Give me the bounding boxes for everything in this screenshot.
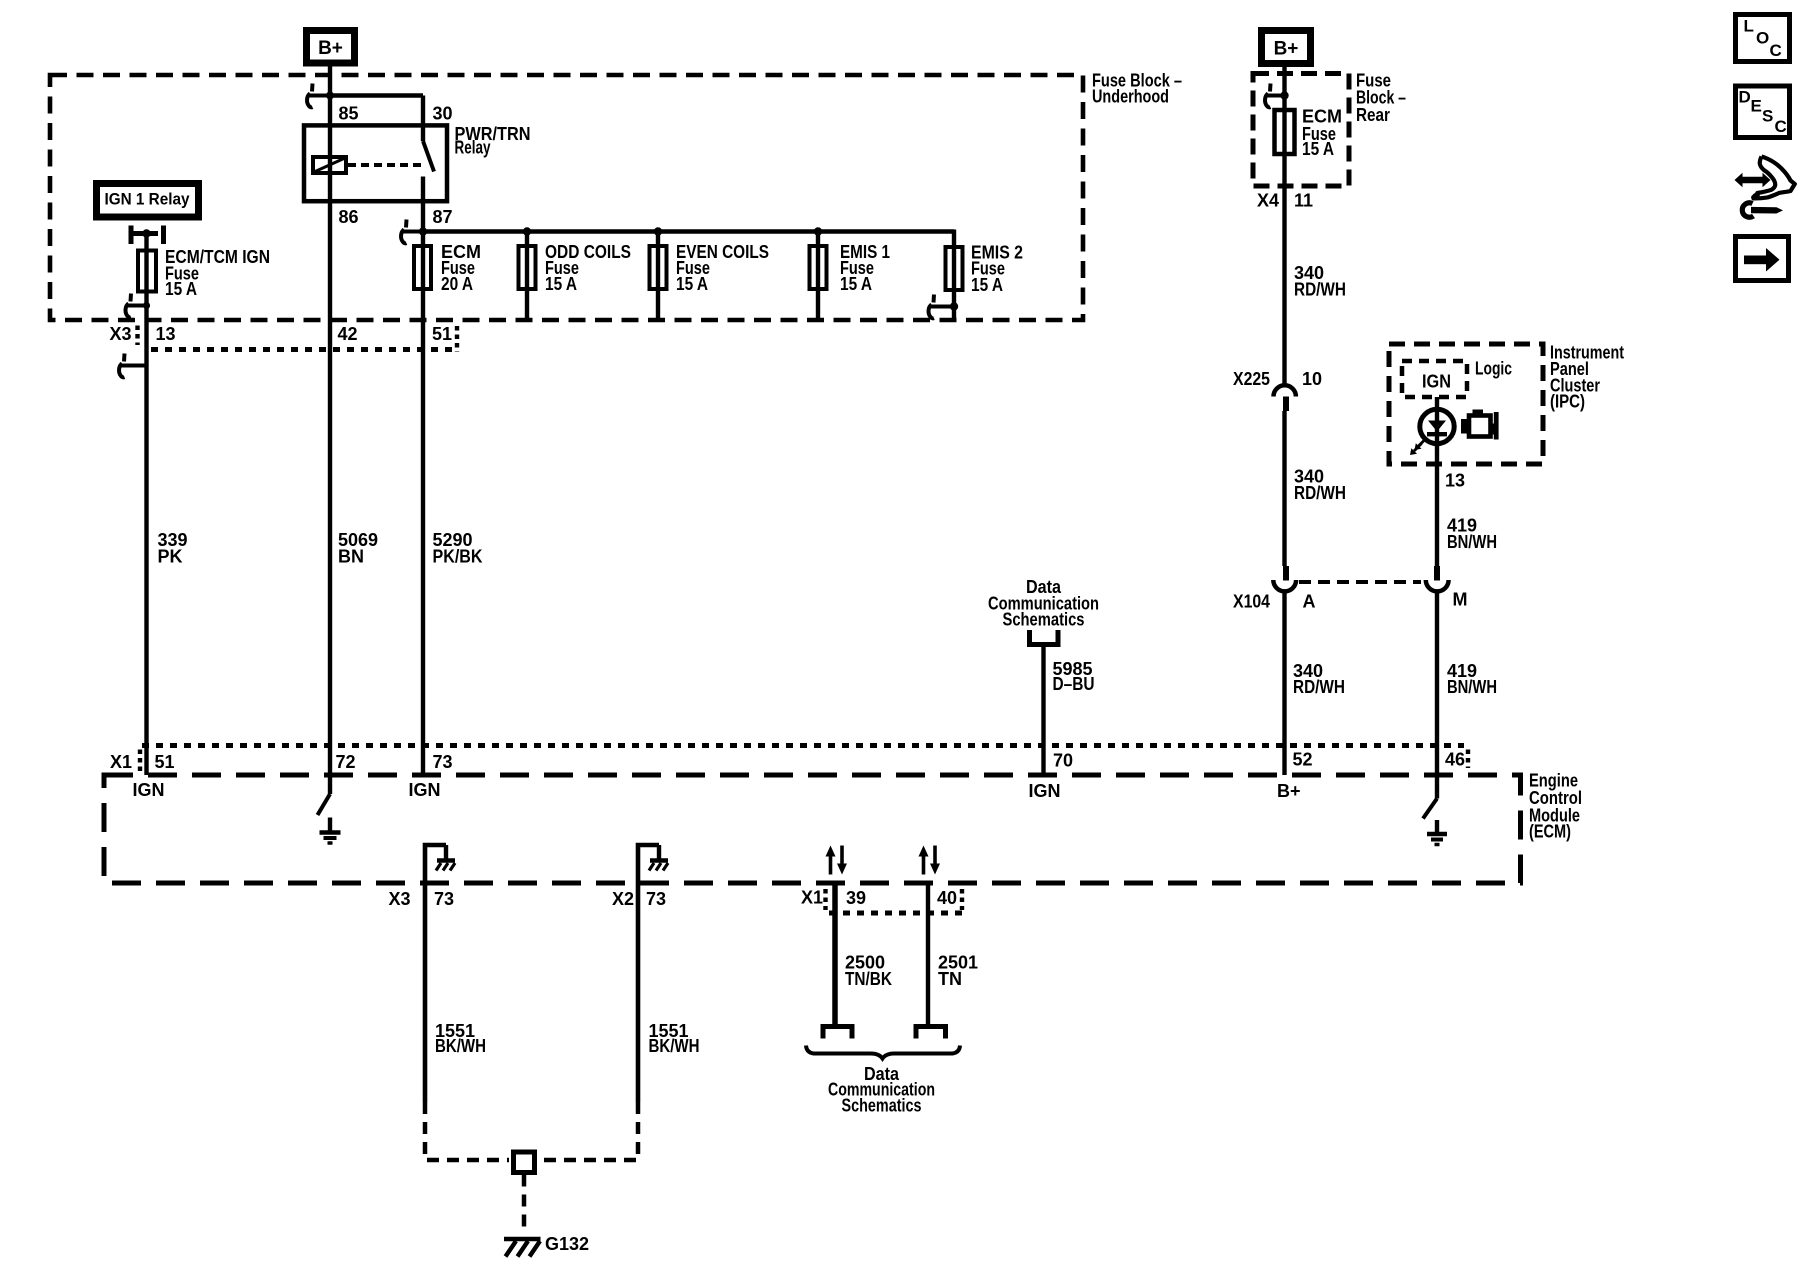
wire label 5290 PK/BK [433,530,483,566]
wire label 419 BN/WH (1) [1447,515,1497,551]
fuse EVEN COILS 15A [650,246,667,289]
wire IGN1 relay to ECM pin 51 (circuit 339) [144,234,148,776]
fuse label EMIS 1 [840,242,890,294]
icon box LOC [1736,15,1790,62]
fuse label ECM 20A [441,242,481,294]
node dot ODD COILS [523,227,531,235]
svg-text:C: C [1770,41,1782,60]
svg-text:X1: X1 [801,888,823,908]
fuse label EMIS 2 [971,242,1023,294]
check engine icon [1461,410,1499,440]
wire X104-A to ECM pin 52 (circuit 340) [1282,593,1286,776]
connector clip at rear ECM fuse [1265,84,1289,108]
svg-text:X3: X3 [389,889,411,909]
relay label PWR/TRN Relay [455,124,531,158]
wire IGN to indicator to IPC pin 13 [1435,397,1439,566]
svg-text:X104: X104 [1233,591,1270,611]
svg-text:70: 70 [1053,751,1073,771]
ground at ECM pin 46 [1427,820,1447,845]
wire B+ to coil and pin 86 down to ECM pin 72 [328,67,332,795]
wire label 5069 BN [338,530,378,566]
connector X3 dotted line [151,347,457,352]
relay actuation dashed link [348,163,421,167]
wire ECM pin 39 (circuit 2500) [832,883,838,1027]
svg-text:39: 39 [846,888,866,908]
connector clip at B+ wire [307,84,334,108]
fuse ECM/TCM IGN 15A [138,251,156,292]
wire label 1551 BK/WH (right) [649,1021,700,1056]
svg-text:BK/WH: BK/WH [435,1036,486,1056]
wire label 5985 D-BU [1053,659,1095,694]
wire label 340 RD/WH (1) [1294,263,1346,299]
svg-text:IGN: IGN [133,780,165,800]
svg-text:Relay: Relay [455,138,491,158]
instrument panel cluster dashed box [1389,344,1543,464]
wire pin85 top link to pin 30 [330,93,423,97]
svg-text:C: C [1775,117,1787,136]
connector X104 dashed link A to M [1299,580,1421,584]
splice box G132 [514,1152,535,1173]
connector X225 symbol [1274,385,1296,411]
svg-text:20 A: 20 A [441,274,473,294]
wire label 340 RD/WH (2) [1294,467,1346,503]
ground G132 [504,1239,541,1257]
svg-text:Schematics: Schematics [842,1095,922,1115]
svg-text:X225: X225 [1233,369,1270,389]
wire EMIS 1 fuse branch [816,232,820,321]
fuse ECM 20A [414,246,431,289]
wire label 340 RD/WH (3) [1293,661,1345,697]
switch at ECM pin 72 [318,794,331,815]
fuse block rear label [1356,71,1406,126]
svg-text:42: 42 [338,324,358,344]
svg-text:86: 86 [339,207,359,227]
svg-text:O: O [1756,29,1769,48]
dashed wire to splice G132 (right) [539,1102,638,1160]
svg-text:51: 51 [155,752,175,772]
svg-text:RD/WH: RD/WH [1294,483,1346,503]
svg-text:BN/WH: BN/WH [1447,677,1497,697]
wire EMIS 2 fuse branch [952,230,956,321]
wire label 1551 BK/WH (left) [435,1021,486,1056]
indicator diode cathode bar [1427,432,1447,436]
svg-text:(IPC): (IPC) [1550,392,1585,412]
data arrows at pin 40 [919,846,941,875]
icon box arrow (next page) [1736,237,1789,281]
ECM ground pigtail X3-73 wire (circuit 1551) [425,845,446,1102]
connector X104 pin A symbol [1273,566,1296,591]
svg-text:X1: X1 [110,752,132,772]
dashed wire to splice G132 (left) [425,1102,509,1160]
brace data communication [806,1046,960,1059]
indicator diode triangle [1428,421,1446,432]
svg-text:L: L [1744,17,1754,36]
ECM ground pigtail X2-73 wire (circuit 1551) [638,845,659,1102]
svg-text:RD/WH: RD/WH [1294,280,1346,300]
wire X225 to X104 (circuit 340) [1282,411,1286,566]
wire label 2500 TN/BK [845,952,892,988]
svg-text:15 A: 15 A [971,275,1003,295]
svg-text:X2: X2 [612,889,634,909]
svg-text:TN/BK: TN/BK [845,969,892,989]
connector X1 dotted line (bottom) [829,911,962,916]
svg-text:IGN: IGN [409,780,441,800]
relay PWR/TRN box [304,125,447,201]
wire right B+ down to X225 (circuit 340) [1282,67,1286,385]
fuse label EVEN COILS [676,242,769,294]
svg-text:IGN: IGN [1029,781,1061,801]
svg-text:15 A: 15 A [165,279,197,299]
fuse label ECM/TCM IGN [165,247,270,299]
svg-text:Underhood: Underhood [1092,86,1169,106]
fuse ODD COILS 15A [519,246,536,289]
svg-text:72: 72 [336,752,356,772]
IPC label [1550,343,1624,412]
fuse EMIS 1 15A [810,246,827,289]
svg-text:46: 46 [1445,750,1465,770]
svg-text:B+: B+ [1277,781,1301,801]
svg-text:40: 40 [937,888,957,908]
fuse label ECM 15A rear [1302,107,1342,159]
node IGN dashed box [1402,361,1467,397]
wire pin 30 drop [421,96,425,142]
svg-text:B+: B+ [318,38,343,59]
IGN 1 relay output terminal bracket [131,226,164,245]
svg-text:Rear: Rear [1356,105,1390,125]
svg-text:13: 13 [156,324,176,344]
icon box DESC [1736,86,1790,138]
svg-text:IGN 1 Relay: IGN 1 Relay [105,189,190,208]
off-page terminal (top data comm) [1030,630,1059,645]
wire EVEN COILS fuse branch [656,232,660,321]
relay switch blade pin 30-87 [423,141,434,172]
connector X3 dotted tick [135,326,139,346]
svg-text:B+: B+ [1274,39,1299,60]
svg-text:73: 73 [646,889,666,909]
svg-text:RD/WH: RD/WH [1293,677,1345,697]
svg-text:E: E [1751,97,1762,116]
svg-text:11: 11 [1294,190,1313,210]
power symbol B+ (right) [1262,31,1311,64]
svg-text:PK: PK [158,546,183,566]
relay IGN 1 Relay label box [97,184,199,218]
data arrows at pin 39 [826,846,848,875]
icon double arrow [1735,173,1771,187]
connector clip below EMIS 2 fuse [929,295,959,319]
wire ECM fuse drop to ECM pin 73 (circuit 5290) [421,232,425,776]
relay coil [313,157,346,173]
connector X1 dotted line [142,743,1464,748]
svg-text:15 A: 15 A [545,274,577,294]
icon wrench [1742,203,1783,217]
ECM label [1529,771,1582,842]
svg-text:IGN: IGN [1422,372,1451,392]
connector clip below X3-13 [119,354,146,378]
svg-text:S: S [1762,107,1773,126]
dashed stub to ground G132 [522,1175,527,1234]
indicator lamp LED circle [1420,409,1454,443]
svg-text:Logic: Logic [1475,358,1512,378]
svg-text:15 A: 15 A [840,274,872,294]
svg-text:30: 30 [433,103,453,123]
ground at ECM pin 72 [320,818,341,844]
wire label 2501 TN [938,952,978,988]
label Data Communication Schematics (top) [988,577,1099,629]
wire data comm to ECM pin 70 (circuit 5985) [1041,645,1045,776]
svg-text:X4: X4 [1257,190,1279,210]
svg-text:BK/WH: BK/WH [649,1036,700,1056]
wire X104-M to ECM pin 46 (circuit 419) [1435,593,1439,799]
svg-text:BN: BN [338,546,364,566]
node dot EVEN COILS [654,227,662,235]
svg-text:G132: G132 [545,1234,589,1254]
connector dotted tick right of 51 [455,326,459,352]
label Data Communication Schematics (bottom) [828,1064,935,1116]
svg-text:73: 73 [433,752,453,772]
svg-text:15 A: 15 A [1302,139,1334,159]
connector dotted tick right of 40 [960,889,964,910]
svg-text:85: 85 [339,103,359,123]
chassis ground at X2-73 pigtail [649,845,668,871]
connector dotted tick right of 46 [1466,750,1470,769]
chassis ground at X3-73 pigtail [436,845,455,871]
svg-text:Schematics: Schematics [1003,610,1085,630]
off-page terminal pin 39 [823,1027,852,1039]
svg-text:13: 13 [1445,470,1465,490]
svg-text:M: M [1453,590,1468,610]
svg-text:10: 10 [1302,369,1322,389]
fuse block underhood label [1092,70,1182,106]
switch at ECM pin 46 [1423,799,1437,819]
svg-text:D: D [1739,88,1751,107]
svg-text:TN: TN [938,969,962,989]
fuse block rear dashed box [1253,74,1349,187]
svg-text:PK/BK: PK/BK [433,546,483,566]
svg-text:BN/WH: BN/WH [1447,532,1497,552]
indicator flash arrows [1410,439,1426,456]
wire fuse bus pin 87 [423,229,954,234]
connector clip below ECM/TCM IGN fuse [126,294,151,318]
wire label 339 PK [158,530,188,566]
svg-text:73: 73 [434,889,454,909]
connector X104 pin M symbol [1426,566,1449,591]
connector X1 dotted tick [138,750,142,773]
svg-text:A: A [1303,591,1316,611]
node dot EMIS 1 [814,227,822,235]
fuse ECM 15A (rear) [1275,110,1295,154]
connector clip at pin 87 bus junction [401,220,427,244]
svg-text:D–BU: D–BU [1053,674,1095,694]
wire ECM pin 40 (circuit 2501) [926,883,930,1027]
svg-text:(ECM): (ECM) [1529,821,1571,841]
fuse EMIS 2 15A [946,247,963,290]
wire ODD COILS fuse branch [525,232,529,321]
off-page terminal pin 40 [916,1027,946,1039]
svg-text:52: 52 [1293,750,1313,770]
power symbol B+ (left) [307,31,355,64]
svg-text:87: 87 [433,207,453,227]
svg-text:15 A: 15 A [676,274,708,294]
svg-text:X3: X3 [110,324,132,344]
connector X1 dotted tick (bottom) [823,889,827,910]
wire pin 87 inside relay [421,177,425,232]
fuse block underhood dashed box [50,75,1083,320]
wire label 419 BN/WH (2) [1447,661,1497,697]
fuse label ODD COILS [545,242,631,294]
engine control module dashed box [104,775,1521,883]
svg-text:51: 51 [432,324,452,344]
icon hand outline [1753,157,1795,199]
